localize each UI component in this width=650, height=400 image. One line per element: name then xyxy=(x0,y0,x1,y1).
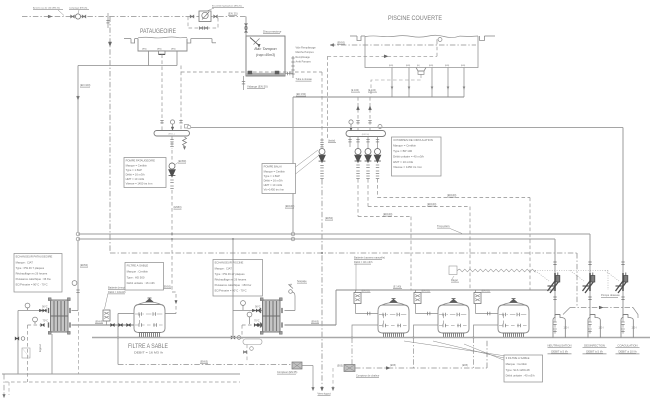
svg-text:120 l: 120 l xyxy=(599,328,604,330)
svg-text:(cap=45m3): (cap=45m3) xyxy=(256,53,275,57)
paddling pool underdrain plenum xyxy=(78,51,177,66)
labels: basin drains EN xyxy=(142,49,176,51)
flow meter box 1 xyxy=(277,362,302,374)
svg-text:Marque : CIAT: Marque : CIAT xyxy=(215,266,233,270)
wire: sweep vacuum dashed line pataugeoire xyxy=(181,71,322,73)
svg-text:Ensemble hydrophore (EN 25): Ensemble hydrophore (EN 25) xyxy=(212,4,242,7)
label: Disconnecteur xyxy=(263,30,282,34)
wire: pool return pipe lower xyxy=(78,238,555,240)
dosing pump station 2 xyxy=(583,262,595,299)
svg-text:Egout: Egout xyxy=(38,344,42,352)
svg-text:FILTRE A SABLE: FILTRE A SABLE xyxy=(128,343,169,350)
svg-text:Compteur (EN 65): Compteur (EN 65) xyxy=(277,371,297,374)
circulation pump P2 xyxy=(365,137,372,179)
wire: supply drop to buffer tank xyxy=(245,17,248,37)
svg-text:Type = BP 100: Type = BP 100 xyxy=(393,149,412,153)
svg-text:Débit unitaire = 40 m3/h: Débit unitaire = 40 m3/h xyxy=(393,154,424,158)
label: Ensemble hydrophore (EN 25) xyxy=(207,4,244,11)
svg-text:(EN 150): (EN 150) xyxy=(296,93,306,96)
svg-text:Arrivée eau de ville (EN 25): Arrivée eau de ville (EN 25) xyxy=(33,7,60,10)
svg-text:Marque = Certikin: Marque = Certikin xyxy=(393,144,416,148)
svg-text:Débit = 16 m3/h: Débit = 16 m3/h xyxy=(126,173,146,177)
svg-text:Marque = Certikin: Marque = Certikin xyxy=(126,163,148,167)
wire: sewer exit bottom left xyxy=(3,374,9,398)
svg-text:POMPE PATAUGEOIRE: POMPE PATAUGEOIRE xyxy=(126,159,155,163)
svg-text:Arrêt Pompes: Arrêt Pompes xyxy=(296,60,312,63)
label: Bac Tampon cap 45m3 xyxy=(254,46,277,57)
svg-text:(EN50): (EN50) xyxy=(80,264,88,267)
svg-text:NEUTRALISATION: NEUTRALISATION xyxy=(547,344,571,348)
wire: collector drop to pipe pair xyxy=(285,97,295,241)
svg-text:(EN): (EN) xyxy=(157,49,162,51)
wire: heating supply drop xyxy=(15,311,25,375)
svg-text:(EN50): (EN50) xyxy=(178,159,186,163)
svg-text:DEBIT = 16 M3 /h: DEBIT = 16 M3 /h xyxy=(134,351,163,355)
wire: sewer dash-dot drop and transfer xyxy=(563,253,638,318)
wire: make-up water dash-dot drop xyxy=(108,17,111,254)
svg-text:120 l: 120 l xyxy=(632,328,637,330)
info box: 3 pompes de circulation xyxy=(392,137,442,176)
wire: exchanger condensate drain to floor xyxy=(51,334,53,374)
label: egout rotated xyxy=(38,344,42,352)
backwash battery F1 xyxy=(354,290,371,314)
svg-text:(E65): (E65) xyxy=(390,364,396,367)
label: DESINFECTION xyxy=(583,344,607,354)
label: batterie filtre xyxy=(105,286,143,309)
leader lines to filter info box xyxy=(404,341,506,361)
backwash battery F3 xyxy=(474,290,491,314)
wire: left plant room floor dashed xyxy=(5,381,240,383)
svg-text:(EN1..): (EN1..) xyxy=(168,134,175,136)
svg-text:(EN 100): (EN 100) xyxy=(80,83,91,87)
svg-text:DESINFECTION: DESINFECTION xyxy=(584,344,605,348)
wire: feed drop to station 3 xyxy=(622,128,624,317)
wire: main drain dashed jog xyxy=(371,74,421,97)
circulation pump P1 xyxy=(355,137,362,179)
wire: return pipe drop to station 2 xyxy=(589,234,591,316)
label: balai xyxy=(328,139,336,143)
svg-text:Vitesse = 1450 trs /mn: Vitesse = 1450 trs /mn xyxy=(126,182,153,186)
svg-text:(EN65): (EN65) xyxy=(311,321,319,324)
svg-text:(EN50): (EN50) xyxy=(163,286,171,289)
svg-text:(EN100): (EN100) xyxy=(427,203,436,206)
svg-text:DEBIT à 10 l/h: DEBIT à 10 l/h xyxy=(618,349,637,353)
svg-text:Tube à niveau: Tube à niveau xyxy=(296,77,313,81)
wire: sweep vacuum dashed into pool xyxy=(328,38,443,58)
svg-text:Vers égout: Vers égout xyxy=(317,392,331,396)
wire: pump P3 discharge dashed xyxy=(378,179,531,290)
wire: balai discharge dash-dot to sewer xyxy=(321,179,334,391)
wire: filter top feed xyxy=(117,314,134,365)
label: (EN 100) on overflow xyxy=(80,83,91,87)
wire: sweep vacuum dashed drop to pump xyxy=(327,56,329,140)
sand filter vessel F1 xyxy=(351,299,409,369)
svg-text:(EN50): (EN50) xyxy=(174,206,182,209)
wire: sewer dash-dot main xyxy=(110,252,577,254)
svg-text:FILTRE A SABLE: FILTRE A SABLE xyxy=(127,264,149,268)
info box: echangeur pataugeoire xyxy=(14,254,62,293)
svg-text:Compteur de chaleur: Compteur de chaleur xyxy=(356,375,380,378)
svg-text:Débit = 16m3/h: Débit = 16m3/h xyxy=(108,290,126,294)
svg-text:Débit unitaire : 16 m3h: Débit unitaire : 16 m3h xyxy=(127,281,156,285)
relief valve on left manifold xyxy=(183,137,187,150)
label: Comptage (EN 25) xyxy=(69,7,89,14)
label: Arrivee eau de ville (EN 25) xyxy=(33,7,64,16)
svg-text:(EN): (EN) xyxy=(461,65,465,67)
valve downstream of meter xyxy=(82,15,86,18)
wire: exchanger primary riser xyxy=(72,241,89,311)
tank level gauge tube xyxy=(285,56,295,78)
main pool basin xyxy=(350,35,495,67)
dosing tank station 2 xyxy=(588,315,604,338)
pool main drain sump xyxy=(416,65,426,74)
sand filter vessel xyxy=(134,298,165,337)
svg-text:Marque = Certikin: Marque = Certikin xyxy=(264,169,286,173)
left manifold (pataugeoire) xyxy=(154,120,191,136)
svg-text:(EN): (EN) xyxy=(429,65,433,67)
heat meter box 2 xyxy=(337,365,380,378)
svg-text:(EN): (EN) xyxy=(445,65,449,67)
svg-text:Type : PW 46 7 plaques: Type : PW 46 7 plaques xyxy=(16,266,45,270)
info box: filtre a sable xyxy=(125,263,164,291)
svg-text:Débit = 16 m3/h: Débit = 16 m3/h xyxy=(264,179,284,183)
label: (EN 25) on supply xyxy=(228,12,238,16)
wire: suction collector header xyxy=(293,96,464,98)
label: Vers egout xyxy=(317,392,331,396)
svg-text:(balai): (balai) xyxy=(328,139,335,143)
label: pump EN50 xyxy=(175,159,187,165)
wire: underdrain dashed down to manifold xyxy=(179,66,182,131)
wire: backwash drain dash-dot xyxy=(118,361,292,365)
svg-text:(EN 65): (EN 65) xyxy=(482,290,490,293)
pool bottom drains xyxy=(389,65,465,97)
svg-text:Type: SLS 1200-48: Type: SLS 1200-48 xyxy=(506,368,530,372)
wire: meter1 to sewer xyxy=(302,366,314,391)
svg-text:EC/Primaire = 90°C - 70°C: EC/Primaire = 90°C - 70°C xyxy=(16,283,48,287)
svg-text:(EN): (EN) xyxy=(389,65,393,67)
svg-text:(EN): (EN) xyxy=(142,49,147,51)
wire: pataugeoire overflow line to pipe pair xyxy=(76,66,80,241)
wire: pool fill dash-dot waterline xyxy=(330,41,476,46)
tank drain Vidange xyxy=(242,76,268,90)
circulation suction manifold xyxy=(346,120,386,137)
svg-text:Marque : Certikin: Marque : Certikin xyxy=(506,362,528,366)
svg-text:Remplissage: Remplissage xyxy=(296,56,311,59)
svg-text:PISCINE COUVERTE: PISCINE COUVERTE xyxy=(388,15,443,22)
svg-text:Puissance calorifique : 36 Kw: Puissance calorifique : 36 Kw xyxy=(16,277,51,281)
circulation pump P3 xyxy=(374,137,381,179)
wire: return pipe drop to station 1 xyxy=(554,239,556,316)
buffer tank Bac Tampon xyxy=(246,36,285,76)
svg-text:Marche Pompes: Marche Pompes xyxy=(296,51,315,54)
water meter xyxy=(75,14,80,19)
svg-text:Réchauffage en 26 heures: Réchauffage en 26 heures xyxy=(16,272,48,276)
wire: filters feed header xyxy=(336,286,555,290)
wire: main return pipe at floor level xyxy=(92,337,650,339)
svg-text:(E): (E) xyxy=(417,65,420,67)
sand filter vessel F3 xyxy=(473,299,530,369)
svg-text:ECHANGEUR PATAUGEOIRE: ECHANGEUR PATAUGEOIRE xyxy=(16,255,53,259)
echangeur piscine drain manifold xyxy=(243,339,262,361)
svg-text:(EN65): (EN65) xyxy=(95,321,103,324)
svg-text:Vidange (EN 50): Vidange (EN 50) xyxy=(247,85,268,89)
pataugeoire pump xyxy=(169,136,176,188)
svg-text:Vide Remplissage: Vide Remplissage xyxy=(296,47,317,50)
label: Pompe doseuse xyxy=(601,293,620,297)
svg-text:(EN 25): (EN 25) xyxy=(228,12,238,16)
capped branch with valve xyxy=(106,13,109,28)
svg-text:(E65): (E65) xyxy=(337,365,343,368)
info box: 3 filtre a sable xyxy=(504,355,543,382)
heat exchanger piscine xyxy=(260,298,282,334)
svg-text:(EN100): (EN100) xyxy=(383,213,392,216)
svg-text:90°C: 90°C xyxy=(42,306,48,309)
heat exchanger pataugeoire xyxy=(48,298,70,334)
wire: filtered water to filters feed riser xyxy=(285,290,337,325)
svg-text:PATAUGEOIRE: PATAUGEOIRE xyxy=(140,28,177,35)
svg-text:(EN65): (EN65) xyxy=(200,361,208,364)
svg-text:ECHANGEUR PISCINE: ECHANGEUR PISCINE xyxy=(215,261,244,265)
info box: pompe balai xyxy=(262,150,318,194)
wire: bottom dash-dot drain run xyxy=(355,340,487,369)
svg-text:Comptage (EN 25): Comptage (EN 25) xyxy=(69,7,88,10)
svg-text:120 l: 120 l xyxy=(564,328,569,330)
wire: echangeur piscine riser from main xyxy=(231,238,262,339)
svg-text:Débit unitaire : 40 m3/h: Débit unitaire : 40 m3/h xyxy=(506,374,535,378)
svg-text:Batterie (vannes manuelle): Batterie (vannes manuelle) xyxy=(354,256,385,260)
svg-text:DEBIT à 5 l/h: DEBIT à 5 l/h xyxy=(551,349,568,353)
svg-text:(EN50): (EN50) xyxy=(325,217,333,220)
filter backwash battery xyxy=(103,310,110,325)
svg-text:Réchauffage en 26 heures: Réchauffage en 26 heures xyxy=(215,278,247,282)
hydrophore unit with bypass xyxy=(188,11,218,29)
label: PISCINE COUVERTE xyxy=(388,15,443,22)
svg-text:DEBIT à 5 l/h: DEBIT à 5 l/h xyxy=(586,349,603,353)
dosing pump station 3 xyxy=(616,262,628,299)
svg-text:(E65): (E65) xyxy=(462,364,468,367)
svg-text:POMPE BALAI: POMPE BALAI xyxy=(264,165,282,169)
label: FILTRE A SABLE xyxy=(128,343,169,355)
dashed drain box xyxy=(22,348,30,358)
svg-text:Vitesse = 1450 trs /mn: Vitesse = 1450 trs /mn xyxy=(393,165,422,169)
wire: exchanger hot inlet xyxy=(18,303,48,312)
labels: level switch functions xyxy=(296,47,317,82)
wire: dashed branch to sewer xyxy=(332,368,335,391)
svg-text:(E 100): (E 100) xyxy=(351,89,359,92)
svg-text:Type : PW 46 27 plaques: Type : PW 46 27 plaques xyxy=(215,272,246,276)
wire: pataugeoire pump discharge dashed xyxy=(163,190,182,314)
svg-text:Vit.=1450 trs /mn: Vit.=1450 trs /mn xyxy=(264,188,285,192)
svg-text:Pompe doseuse: Pompe doseuse xyxy=(601,293,620,297)
wire: pool feed long line xyxy=(190,127,624,129)
svg-text:(EN100): (EN100) xyxy=(447,194,456,197)
paddling pool basin xyxy=(124,37,216,51)
wire: city water supply dash-dot line xyxy=(22,15,246,18)
wire: manifold suction drops xyxy=(351,89,377,131)
svg-text:(EN 65): (EN 65) xyxy=(422,290,430,293)
label: (EN 150) on collector xyxy=(296,93,306,96)
svg-text:Trop-plein: Trop-plein xyxy=(437,224,450,228)
wire: filtered water main to filter xyxy=(72,321,135,327)
sweep pump balai xyxy=(319,72,326,178)
wire: exchanger drain dashed to floor xyxy=(78,312,80,374)
svg-text:(EN): (EN) xyxy=(171,49,176,51)
wire: main drain dashed down to manifold xyxy=(160,54,163,130)
paddling pool main drain sump xyxy=(159,51,165,54)
wire: filter outlet riser xyxy=(165,313,176,315)
svg-text:Marque : Certikin: Marque : Certikin xyxy=(127,270,149,274)
label: PATAUGEOIRE xyxy=(140,28,177,35)
svg-text:70°C: 70°C xyxy=(254,320,260,323)
wire: dotted control lines to dosing pumps xyxy=(535,271,619,291)
svg-text:(EN 65): (EN 65) xyxy=(362,290,370,293)
svg-text:HMT = 10 mCE: HMT = 10 mCE xyxy=(126,177,145,181)
wire: pool return pipe upper xyxy=(78,233,590,235)
svg-text:(E 140): (E 140) xyxy=(393,286,401,289)
svg-text:Type = 1.5HP: Type = 1.5HP xyxy=(126,168,143,172)
info box: pompe pataugeoire xyxy=(124,158,166,188)
svg-text:Type : HD 500: Type : HD 500 xyxy=(127,275,145,279)
dosing tank station 1 xyxy=(553,315,569,338)
svg-text:Soupape: Soupape xyxy=(297,280,307,283)
circulation pump stub xyxy=(348,137,351,148)
svg-text:Bac Tampon: Bac Tampon xyxy=(254,46,277,51)
info box: echangeur piscine xyxy=(213,260,263,297)
svg-text:HMT = 10 mCE: HMT = 10 mCE xyxy=(264,183,283,187)
svg-text:Marque : CIAT: Marque : CIAT xyxy=(16,260,34,264)
label: Trop-plein xyxy=(437,224,462,234)
svg-text:EC/Primaire = 90°C - 70°C: EC/Primaire = 90°C - 70°C xyxy=(215,289,247,293)
svg-text:3 FILTRE A SABLE: 3 FILTRE A SABLE xyxy=(506,356,530,360)
label: COAGULATION xyxy=(616,344,640,354)
backwash battery F2 xyxy=(414,290,431,314)
wire: pump P2 discharge dashed xyxy=(368,179,470,290)
label: NEUTRALISATION xyxy=(547,344,571,354)
regulation controller box xyxy=(449,266,459,282)
sand filter vessel F2 xyxy=(413,299,470,369)
label: batterie de vannes xyxy=(354,256,385,291)
air vent on echangeur piscine xyxy=(285,280,308,311)
svg-text:(EN): (EN) xyxy=(406,65,410,67)
dosing tank station 3 xyxy=(621,315,637,338)
valve upstream of meter xyxy=(71,15,75,18)
svg-text:(E 100): (E 100) xyxy=(368,89,376,92)
svg-text:(EN100): (EN100) xyxy=(285,205,294,208)
wire: control signal zigzag xyxy=(457,269,535,272)
svg-text:COAGULATION: COAGULATION xyxy=(617,344,637,348)
wire: echangeur piscine return dashed xyxy=(242,312,262,339)
wire: pump P1 discharge dashed xyxy=(358,179,411,290)
dosing pump station 1 xyxy=(548,262,560,299)
svg-text:(EN50): (EN50) xyxy=(337,41,345,44)
tank fill spout with air gap xyxy=(250,38,260,48)
svg-text:(EN150): (EN150) xyxy=(362,134,370,136)
wire: exchanger hot return dashed xyxy=(28,317,49,382)
svg-text:70°C: 70°C xyxy=(43,320,49,323)
svg-text:3 POMPES DE CIRCULATION: 3 POMPES DE CIRCULATION xyxy=(393,138,433,142)
svg-text:Débit = 40 m3/h: Débit = 40 m3/h xyxy=(354,260,373,264)
svg-text:Type = 1.5HP: Type = 1.5HP xyxy=(264,174,281,178)
svg-text:HMT = 10 mCE: HMT = 10 mCE xyxy=(393,160,413,164)
svg-text:Disconnecteur: Disconnecteur xyxy=(263,30,282,34)
wire: left plant room floor xyxy=(2,373,240,375)
